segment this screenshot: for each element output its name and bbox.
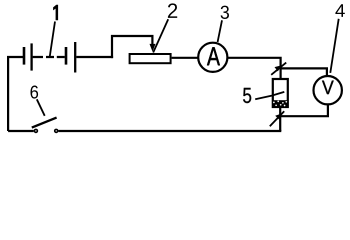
label 5 <box>243 88 251 103</box>
wire bottom rail left <box>8 130 34 132</box>
rheostat slider arrowhead <box>150 44 156 52</box>
wire dashed between cells <box>33 56 65 58</box>
wire voltmeter bottom tap <box>280 105 328 117</box>
resistor 5 body <box>273 79 288 107</box>
label 2 <box>168 3 177 18</box>
leader to label 5 <box>255 92 284 99</box>
probe arrow top head <box>275 65 282 71</box>
wire battery to slider riser <box>76 56 113 58</box>
switch 6 lever <box>32 118 57 128</box>
label 3 <box>221 6 229 19</box>
wire ammeter to top-right corner <box>227 58 280 79</box>
voltmeter letter V <box>322 81 334 94</box>
leader to label 1 <box>50 22 55 57</box>
battery cell 2 short electrode <box>65 47 68 65</box>
voltmeter 4 body <box>314 76 342 104</box>
label 1 <box>53 5 58 20</box>
probe arrow bottom head <box>275 113 282 119</box>
switch 6 terminal left <box>34 129 39 134</box>
probe arrow bottom shaft <box>270 111 284 126</box>
resistor 5 band speckles <box>273 101 287 107</box>
switch 6 terminal right <box>54 129 59 134</box>
wire rheostat slider arm <box>112 36 152 58</box>
wire bottom rail right <box>58 130 281 132</box>
probe arrow top shaft <box>271 63 286 75</box>
wire below resistor 5 <box>279 108 281 131</box>
leader to label 6 <box>37 99 45 116</box>
rheostat 2 body <box>130 54 171 63</box>
ammeter 3 body <box>198 43 227 72</box>
ammeter letter A <box>207 47 220 65</box>
wire rheostat right to ammeter <box>172 57 198 59</box>
label 6 <box>31 86 39 99</box>
wire voltmeter top tap <box>281 68 327 76</box>
battery cell 2 long electrode <box>74 42 76 73</box>
battery cell 1 short electrode <box>23 47 26 65</box>
label 4 <box>335 4 344 17</box>
leader to label 2 <box>153 19 168 52</box>
leader to label 4 <box>330 19 338 73</box>
battery cell 1 long electrode <box>30 43 32 70</box>
resistor 5 shaded band <box>273 100 288 107</box>
wire left vertical with top-left corner <box>8 57 23 131</box>
leader to label 3 <box>218 20 222 42</box>
